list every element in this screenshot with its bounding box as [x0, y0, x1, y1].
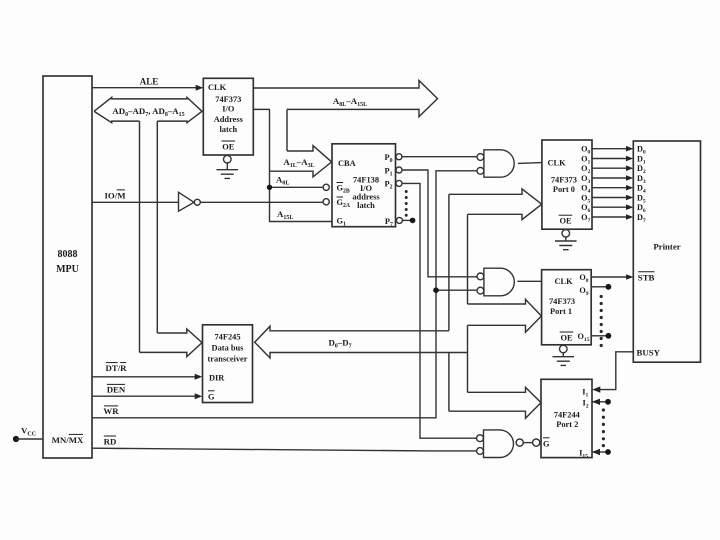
- svg-text:latch: latch: [357, 201, 375, 210]
- svg-text:Address: Address: [214, 115, 244, 124]
- svg-text:OE: OE: [222, 142, 235, 151]
- svg-text:CBA: CBA: [338, 159, 356, 168]
- svg-text:latch: latch: [219, 125, 237, 134]
- svg-text:CLK: CLK: [208, 83, 227, 92]
- svg-text:8088: 8088: [58, 249, 78, 260]
- svg-text:WR: WR: [103, 406, 119, 416]
- svg-text:G: G: [543, 439, 550, 448]
- svg-text:OE: OE: [560, 333, 573, 342]
- svg-text:BUSY: BUSY: [637, 347, 661, 357]
- svg-text:DT/R: DT/R: [105, 363, 127, 373]
- svg-text:ALE: ALE: [140, 77, 159, 87]
- svg-text:CLK: CLK: [555, 277, 574, 286]
- svg-text:IO/M: IO/M: [104, 191, 126, 201]
- svg-text:74F373: 74F373: [551, 176, 577, 185]
- svg-text:DIR: DIR: [209, 374, 225, 383]
- svg-text:RD: RD: [104, 436, 117, 446]
- svg-text:Printer: Printer: [653, 242, 680, 252]
- svg-text:MN/MX: MN/MX: [52, 435, 84, 445]
- svg-text:Port 2: Port 2: [556, 420, 578, 429]
- svg-text:STB: STB: [638, 273, 655, 283]
- svg-text:CLK: CLK: [548, 159, 567, 168]
- svg-text:74F373: 74F373: [215, 95, 241, 104]
- svg-text:I/O: I/O: [222, 105, 235, 114]
- svg-text:Port 1: Port 1: [550, 307, 572, 316]
- svg-text:74F244: 74F244: [554, 410, 581, 419]
- svg-text:MPU: MPU: [56, 264, 79, 275]
- svg-text:DEN: DEN: [107, 385, 126, 395]
- svg-text:Data bus: Data bus: [212, 344, 245, 353]
- svg-text:Port 0: Port 0: [553, 185, 575, 194]
- svg-text:74F245: 74F245: [214, 333, 240, 342]
- svg-text:G: G: [208, 393, 215, 402]
- svg-text:transceiver: transceiver: [208, 355, 248, 364]
- svg-text:74F373: 74F373: [549, 297, 575, 306]
- svg-text:OE: OE: [559, 217, 572, 226]
